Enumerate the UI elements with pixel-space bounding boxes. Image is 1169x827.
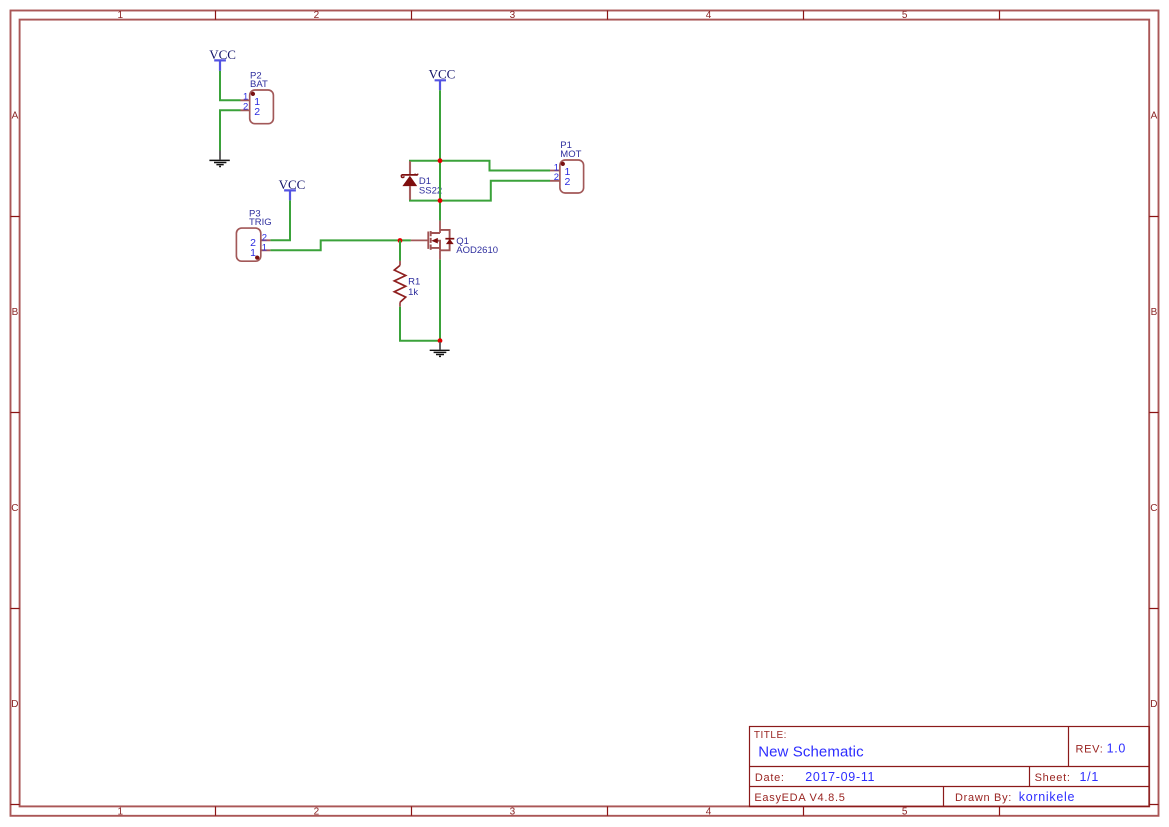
- svg-text:New Schematic: New Schematic: [758, 743, 864, 760]
- P3 pin 2 and pin 1 leads: [261, 240, 271, 250]
- net flag VCC (above D1/Q1): [429, 67, 456, 91]
- connector P1 MOT: [550, 140, 584, 193]
- svg-text:3: 3: [510, 806, 516, 817]
- net flag VCC (above P2): [209, 47, 236, 71]
- connector P2 BAT: [240, 70, 273, 123]
- svg-text:2: 2: [243, 101, 248, 112]
- P1 pin-1 marker dot: [561, 162, 565, 166]
- svg-text:2017-09-11: 2017-09-11: [805, 770, 875, 784]
- P2 body: [250, 90, 274, 124]
- svg-text:TRIG: TRIG: [249, 217, 272, 228]
- svg-text:REV:: REV:: [1076, 744, 1104, 756]
- svg-text:C: C: [1150, 503, 1157, 514]
- svg-text:1: 1: [250, 247, 256, 259]
- Q1 gate electrode bar: [427, 232, 429, 249]
- VCC bar symbol: [284, 190, 296, 200]
- svg-text:Sheet:: Sheet:: [1035, 772, 1071, 784]
- D1 triangle: [402, 176, 417, 186]
- wire P2 pin 2 to ground: [220, 110, 241, 150]
- connector P3 TRIG (mirrored): [236, 208, 271, 261]
- svg-text:TITLE:: TITLE:: [754, 730, 787, 741]
- svg-text:B: B: [1151, 307, 1158, 318]
- P3 pin-1 marker dot: [255, 255, 259, 259]
- Q1 body-diode branch: [440, 230, 450, 250]
- svg-text:MOT: MOT: [560, 149, 581, 160]
- svg-text:B: B: [12, 307, 19, 318]
- Q1 drain and source leads: [439, 221, 441, 260]
- ground (under Q1 source): [430, 342, 450, 356]
- ground bars: [430, 350, 450, 356]
- D1 cathode and anode leads: [409, 161, 411, 200]
- D1 schottky right hook: [415, 174, 418, 175]
- svg-text:2: 2: [254, 106, 260, 118]
- Q1 body-diode triangle: [446, 239, 454, 244]
- svg-text:C: C: [11, 503, 18, 514]
- VCC bar symbol: [214, 60, 226, 71]
- svg-text:kornikele: kornikele: [1019, 790, 1075, 804]
- P2 pin 1 and pin 2 leads: [240, 100, 249, 110]
- svg-text:1/1: 1/1: [1080, 770, 1099, 784]
- wire VCC down to Q1 drain: [439, 90, 441, 220]
- svg-text:EasyEDA V4.8.5: EasyEDA V4.8.5: [754, 792, 845, 804]
- svg-text:1k: 1k: [408, 287, 418, 298]
- node junction D1 bottom / drain rail: [438, 198, 443, 203]
- diode D1 SS22: [401, 161, 442, 200]
- svg-text:Date:: Date:: [755, 772, 785, 784]
- wire R1 to ground node: [400, 307, 440, 341]
- Q1 substrate arrow: [431, 238, 438, 244]
- svg-text:Drawn By:: Drawn By:: [955, 792, 1012, 804]
- svg-text:1.0: 1.0: [1107, 742, 1126, 756]
- svg-text:R1: R1: [408, 277, 420, 288]
- net flag VCC (above P3): [279, 177, 306, 200]
- svg-text:BAT: BAT: [250, 79, 268, 90]
- svg-text:D: D: [11, 699, 18, 710]
- P2 pin-1 marker dot: [251, 92, 255, 96]
- R1 leads: [399, 261, 401, 307]
- wire gate node to R1: [399, 241, 401, 261]
- node junction gate / R1: [398, 238, 403, 243]
- D1 schottky cathode bar: [401, 174, 417, 176]
- svg-text:D: D: [1150, 699, 1157, 710]
- svg-text:1: 1: [118, 10, 124, 21]
- svg-text:2: 2: [314, 806, 320, 817]
- svg-text:2: 2: [565, 176, 571, 188]
- title block outline: [750, 727, 1150, 807]
- svg-text:SS22: SS22: [419, 186, 442, 197]
- ground stem: [439, 342, 441, 350]
- VCC bar symbol: [435, 80, 446, 90]
- ground bars: [209, 160, 229, 166]
- D1 schottky left hook: [401, 175, 404, 178]
- P1 body: [560, 160, 584, 193]
- Q1 substrate connection: [437, 241, 441, 251]
- Q1 body-diode cathode bar: [445, 238, 454, 240]
- ground (under P2): [209, 151, 229, 167]
- svg-text:4: 4: [706, 10, 712, 21]
- svg-text:A: A: [12, 111, 19, 122]
- svg-text:3: 3: [510, 10, 516, 21]
- wire Q1 source to ground node: [439, 260, 441, 341]
- wire P3 pin 1 to Q1 gate node: [270, 240, 411, 250]
- R1 zigzag body: [394, 265, 405, 302]
- P3 body: [236, 228, 260, 261]
- Q1 gate lead: [411, 239, 428, 241]
- wire VCC to P3 pin 2: [270, 200, 290, 240]
- svg-text:A: A: [1151, 111, 1158, 122]
- svg-text:1: 1: [262, 242, 267, 253]
- resistor R1 1k: [394, 261, 420, 307]
- svg-text:2: 2: [314, 10, 320, 21]
- svg-text:AOD2610: AOD2610: [456, 245, 498, 256]
- transistor Q1 AOD2610 (N-MOSFET): [411, 221, 498, 260]
- svg-text:2: 2: [554, 172, 559, 183]
- svg-text:1: 1: [118, 806, 124, 817]
- svg-text:5: 5: [902, 10, 908, 21]
- svg-text:5: 5: [902, 806, 908, 817]
- node junction source / R1 / ground: [438, 338, 443, 343]
- node junction D1 top / VCC rail: [438, 158, 443, 163]
- P1 pin 1 and pin 2 leads: [550, 171, 560, 181]
- Q1 channel segments: [430, 231, 432, 250]
- wire VCC to P2 pin 1: [220, 71, 241, 100]
- ground stem: [219, 151, 221, 160]
- svg-text:4: 4: [706, 806, 712, 817]
- wire top rail to P1 pin 1: [410, 161, 550, 171]
- wire bottom rail to P1 pin 2: [410, 181, 550, 201]
- Q1 drain and source connections: [431, 233, 440, 248]
